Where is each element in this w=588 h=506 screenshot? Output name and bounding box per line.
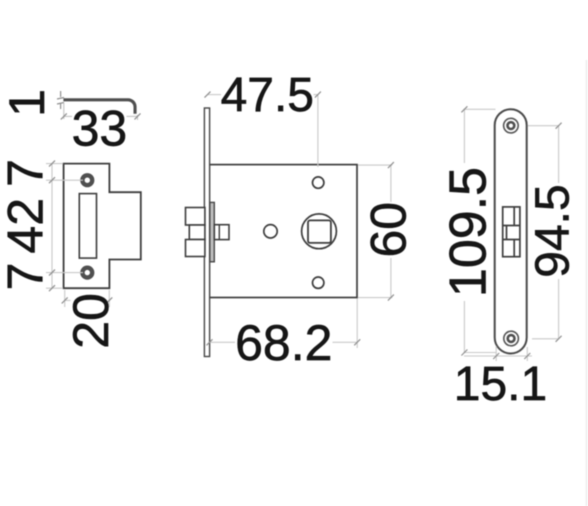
svg-text:7: 7	[0, 263, 54, 291]
dimension line 33	[64, 103, 138, 120]
latch bolt top block	[186, 208, 205, 226]
svg-text:47.5: 47.5	[221, 69, 314, 122]
case top screw hole	[313, 177, 324, 188]
faceplate front view (right)	[495, 109, 527, 353]
svg-text:33: 33	[72, 101, 128, 157]
faceplate bar (middle view)	[204, 108, 209, 357]
spindle circle	[302, 214, 337, 249]
case bottom screw hole	[313, 277, 324, 288]
dimension 94.5	[528, 126, 559, 339]
ticks for 7 / 42 / 7	[49, 161, 55, 292]
faceplate top screw hole	[504, 118, 519, 133]
extension lines left dimension stack	[46, 164, 83, 289]
strike plate top screw hole	[82, 175, 92, 185]
dimension 15.1	[464, 346, 532, 361]
strike plate bottom screw hole	[82, 268, 92, 278]
svg-text:42: 42	[0, 198, 54, 254]
faceplate bottom screw hole	[504, 331, 519, 346]
svg-text:109.5: 109.5	[439, 167, 497, 297]
dimension 60	[358, 165, 392, 298]
svg-text:1: 1	[0, 89, 55, 117]
svg-text:20: 20	[63, 293, 119, 349]
dimension 109.5	[464, 109, 497, 352]
latch flange bar behind faceplate	[210, 202, 215, 261]
svg-text:7: 7	[0, 159, 54, 187]
faceplate latch opening	[503, 207, 520, 257]
latch bolt middle block	[189, 225, 205, 240]
dimension 20 below strike plate	[65, 290, 110, 307]
svg-text:15.1: 15.1	[454, 358, 547, 411]
svg-text:60: 60	[360, 202, 416, 258]
dimension 47.5	[208, 95, 319, 167]
strike plate front view outline	[64, 164, 141, 289]
dimension 68.2	[210, 299, 358, 349]
lock case rectangle (middle view)	[209, 165, 357, 298]
strike plate profile bar (top-left side view)	[63, 98, 136, 114]
spindle square	[308, 220, 331, 243]
svg-text:68.2: 68.2	[235, 315, 332, 371]
strike plate slot	[79, 194, 96, 259]
svg-text:94.5: 94.5	[527, 184, 580, 277]
latch bolt bottom block	[186, 240, 205, 257]
latch tail box	[214, 225, 229, 240]
case middle hole	[264, 225, 277, 238]
faint right edge artifact	[586, 60, 588, 506]
dimension ticks for thickness 1	[57, 91, 64, 109]
